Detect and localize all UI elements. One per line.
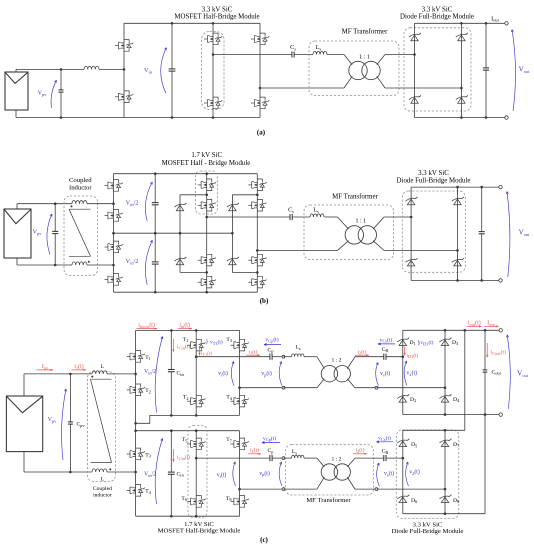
svg-text:vp(t): vp(t) xyxy=(259,470,270,477)
svg-text:T4: T4 xyxy=(226,395,232,401)
svg-text:Cpv: Cpv xyxy=(76,422,85,428)
svg-text:i2(t): i2(t) xyxy=(355,447,364,454)
svg-text:vs(t): vs(t) xyxy=(384,470,394,477)
svg-text:Cout: Cout xyxy=(492,369,502,375)
svg-text:T3: T3 xyxy=(145,452,151,458)
svg-text:vs(t): vs(t) xyxy=(380,370,390,377)
svg-text:D8: D8 xyxy=(453,498,460,504)
svg-text:Cp: Cp xyxy=(268,448,275,454)
svg-text:}: } xyxy=(206,340,209,346)
svg-text:CR: CR xyxy=(382,347,389,353)
svg-text:Cp: Cp xyxy=(268,347,275,353)
svg-text:(b): (b) xyxy=(260,297,269,305)
svg-text:D2: D2 xyxy=(410,397,416,403)
svg-text:1.7 kV SiC: 1.7 kV SiC xyxy=(191,152,222,159)
svg-text:v2(t): v2(t) xyxy=(407,370,418,377)
svg-text:T6: T6 xyxy=(181,496,187,502)
svg-text:Vin/2: Vin/2 xyxy=(144,369,156,375)
svg-text:MOSFET Half-Bridge Module: MOSFET Half-Bridge Module xyxy=(174,14,259,21)
svg-text:MOSFET Half - Bridge Module: MOSFET Half - Bridge Module xyxy=(162,160,251,167)
svg-text:1 : 2: 1 : 2 xyxy=(332,358,342,364)
svg-text:Diode Full-Bridge Module: Diode Full-Bridge Module xyxy=(392,528,464,535)
svg-text:v2(t): v2(t) xyxy=(409,469,420,476)
svg-text:T2: T2 xyxy=(183,395,189,401)
svg-text:T4: T4 xyxy=(145,489,151,495)
svg-text:Cin: Cin xyxy=(177,471,185,477)
svg-text:T7: T7 xyxy=(226,437,232,443)
svg-text:(a): (a) xyxy=(257,128,266,136)
svg-text:Coupled: Coupled xyxy=(69,177,92,184)
svg-text:i1(t): i1(t) xyxy=(248,348,257,355)
svg-text:T3: T3 xyxy=(226,337,232,343)
svg-text:3.3 kV SiC: 3.3 kV SiC xyxy=(418,170,449,177)
svg-text:Vpv: Vpv xyxy=(48,417,57,423)
svg-text:D6: D6 xyxy=(411,498,418,504)
svg-text:Cin: Cin xyxy=(177,371,185,377)
svg-text:CR: CR xyxy=(382,449,389,455)
svg-text:vp(t): vp(t) xyxy=(261,370,272,377)
svg-text:T1: T1 xyxy=(183,337,189,343)
svg-text:T8: T8 xyxy=(226,496,232,502)
svg-text:MF Transformer: MF Transformer xyxy=(306,497,351,504)
svg-text:Diode Full-Bridge Module: Diode Full-Bridge Module xyxy=(400,14,474,21)
svg-text:iT1(t): iT1(t) xyxy=(201,352,212,357)
svg-text:vi(t): vi(t) xyxy=(217,472,227,479)
svg-text:i1(t): i1(t) xyxy=(250,447,259,454)
svg-text:D5: D5 xyxy=(411,442,418,448)
svg-text:Inductor: Inductor xyxy=(69,185,92,192)
svg-text:3.3 kV SiC: 3.3 kV SiC xyxy=(422,6,453,13)
svg-text:Vin/2: Vin/2 xyxy=(144,472,156,478)
svg-text:(c): (c) xyxy=(260,536,268,544)
svg-text:MF Transformer: MF Transformer xyxy=(342,29,388,36)
svg-text:L: L xyxy=(101,364,105,370)
svg-text:Ipv: Ipv xyxy=(42,364,49,370)
svg-text:Diode Full-Bridge Module: Diode Full-Bridge Module xyxy=(397,177,471,184)
svg-text:T2: T2 xyxy=(145,388,151,394)
svg-text:Ls: Ls xyxy=(292,449,297,455)
svg-text:MF Transformer: MF Transformer xyxy=(332,193,378,200)
svg-text:T1: T1 xyxy=(145,355,151,361)
svg-text:L: L xyxy=(101,477,105,483)
svg-text:vi(t): vi(t) xyxy=(218,370,228,377)
svg-text:i1(t): i1(t) xyxy=(74,363,83,370)
svg-text:D4: D4 xyxy=(453,397,460,403)
svg-text:D7: D7 xyxy=(453,442,460,448)
svg-text:D1: D1 xyxy=(410,340,416,346)
svg-text:Ls: Ls xyxy=(295,345,300,351)
svg-text:Iout: Iout xyxy=(487,321,495,327)
svg-text:1 : 1: 1 : 1 xyxy=(355,219,366,225)
svg-text:T5: T5 xyxy=(182,437,188,443)
svg-text:MOSFET Half-Bridge Module: MOSFET Half-Bridge Module xyxy=(158,527,241,534)
svg-text:1 : 2: 1 : 2 xyxy=(332,457,342,463)
svg-text:1 : 1: 1 : 1 xyxy=(359,55,370,61)
svg-text:3.3 kV SiC: 3.3 kV SiC xyxy=(202,6,233,13)
svg-text:i2(t): i2(t) xyxy=(357,348,366,355)
svg-text:inductor: inductor xyxy=(93,493,112,499)
svg-text:Coupled: Coupled xyxy=(93,486,112,492)
svg-text:D3: D3 xyxy=(452,340,459,346)
svg-text:iin(t): iin(t) xyxy=(179,321,190,328)
